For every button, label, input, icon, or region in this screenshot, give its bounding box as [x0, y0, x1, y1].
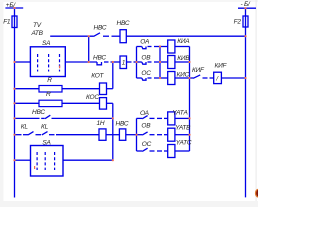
wire rung6 between coils — [106, 134, 119, 136]
junction dot bus rung3 — [13, 88, 15, 90]
svg-text:- Б/: - Б/ — [241, 1, 251, 8]
wire rung3 from bus — [15, 88, 40, 90]
coil 1H — [99, 129, 106, 140]
contact OC upper — [137, 77, 142, 79]
junction dot rung5 V2 — [112, 117, 114, 119]
wire right bus vertical — [245, 8, 247, 197]
contact KL 1 — [23, 134, 28, 136]
wire rung5 right — [52, 117, 113, 119]
wire rung6 from bus — [15, 134, 22, 136]
junction dot middle rail C — [159, 77, 161, 79]
wire rung1 right — [126, 35, 245, 37]
wire rung2 coil to rail — [127, 61, 132, 63]
left window edge — [0, 0, 4, 207]
svg-text:КИС: КИС — [177, 71, 190, 78]
node +B bus top line — [5, 7, 23, 9]
svg-text:F1: F1 — [3, 18, 11, 25]
coil YATB — [168, 128, 175, 141]
wire rung4 mid — [62, 102, 100, 104]
svg-text:НВС: НВС — [116, 121, 129, 128]
wire rung6 to lower rail — [126, 134, 137, 136]
svg-text:YATА: YATА — [172, 110, 187, 117]
svg-text:КИА: КИА — [177, 38, 189, 45]
svg-text:ОВ: ОВ — [141, 54, 151, 61]
red tick SA1 — [59, 66, 60, 69]
wire rung1 left — [50, 35, 93, 37]
coil KIA — [160, 46, 168, 48]
wire KIF to right bus — [221, 77, 245, 79]
svg-text:КОС: КОС — [86, 94, 99, 101]
svg-text:SA: SA — [42, 40, 50, 47]
junction dot KIF bus — [244, 77, 246, 79]
contact KIF — [190, 77, 194, 79]
fuse F1 — [12, 16, 17, 28]
contact OB upper — [137, 61, 142, 63]
junction dot +B — [13, 7, 15, 9]
wire rung4 from bus — [15, 102, 40, 104]
red tick SA2 — [34, 166, 35, 169]
junction dot right rail lower A — [188, 117, 190, 119]
junction dot right rail B — [188, 61, 190, 63]
wire right rail — [189, 47, 191, 152]
fuse F2 — [243, 16, 248, 27]
svg-text:КL: КL — [21, 123, 29, 130]
svg-text:SA: SA — [42, 140, 50, 147]
svg-text:ОА: ОА — [140, 110, 149, 117]
wire bus to SA box — [15, 61, 31, 63]
svg-text:НВС: НВС — [94, 24, 107, 31]
svg-text:КИВ: КИВ — [177, 55, 190, 62]
wire bus to SA2 box — [15, 159, 31, 161]
svg-text:R: R — [46, 91, 51, 98]
svg-text:НВС: НВС — [32, 109, 45, 116]
svg-text:ОС: ОС — [142, 141, 152, 148]
svg-text:ТV: ТV — [33, 22, 42, 29]
svg-text:НВС: НВС — [117, 20, 130, 27]
svg-text:КИF: КИF — [192, 67, 205, 74]
junction dot right rail C — [188, 77, 190, 79]
wire vertical V2 rung4-SA2 — [112, 103, 114, 160]
contact OC lower — [137, 150, 143, 152]
junction dot -B — [244, 7, 246, 9]
wire vertical V1 rung2-rung3 — [112, 62, 114, 89]
wire upper group middle rail — [159, 47, 161, 79]
svg-text:F2: F2 — [234, 19, 242, 26]
wire rung5 from bus — [15, 117, 40, 119]
switch SA box lower — [31, 146, 64, 177]
coil YATA — [168, 112, 175, 125]
coil rung2 — [120, 56, 127, 69]
junction dot rung2 left — [88, 61, 90, 63]
wire rung6 mid — [56, 134, 99, 136]
wire SA box to junction — [65, 61, 97, 63]
svg-text:КL: КL — [41, 123, 49, 130]
contact HBC rung5 — [41, 117, 45, 119]
junction dot rung1 — [88, 35, 90, 37]
svg-text:ОВ: ОВ — [141, 123, 151, 130]
junction dot bus rung4 — [13, 102, 15, 104]
wire upper group left rail — [136, 47, 138, 79]
wire vertical rung1-rung2 — [88, 36, 90, 62]
coil KIC — [160, 77, 168, 79]
wire lower group left rail — [136, 118, 138, 151]
svg-text:YATВ: YATВ — [175, 124, 191, 131]
junction dot bus rung2 — [13, 61, 15, 63]
svg-text:АТВ: АТВ — [31, 30, 44, 37]
resistor R rung4 — [39, 100, 62, 106]
contact OB lower — [137, 134, 143, 136]
coil KOC — [100, 98, 107, 110]
junction dot middle rail B — [159, 61, 161, 63]
contact KL 2 — [42, 132, 48, 135]
svg-text:1Н: 1Н — [97, 120, 105, 127]
svg-text:+Б/: +Б/ — [6, 2, 17, 9]
junction dot rung2 rail — [135, 61, 137, 63]
coil KIB — [160, 61, 168, 63]
junction dot rung1 right bus — [244, 35, 246, 37]
junction dot middle rail A — [159, 45, 161, 47]
node -B bus top line — [238, 7, 256, 9]
switch SA box upper — [30, 47, 65, 77]
contact OA lower — [137, 117, 143, 119]
contact HBC rung2 — [97, 62, 102, 65]
junction dot bus rung5 — [13, 117, 15, 119]
svg-text:R: R — [47, 77, 52, 84]
svg-text:YATС: YATС — [176, 139, 192, 146]
svg-text:КИF: КИF — [215, 63, 228, 70]
coil KIF — [214, 72, 222, 83]
coil HBC rung1 — [120, 30, 126, 43]
resistor R rung3 — [39, 86, 62, 93]
coil HBC rung6 — [119, 129, 125, 140]
wire rung3 right — [107, 88, 113, 90]
junction dot rung2 V1 — [112, 61, 114, 63]
svg-text:КОТ: КОТ — [91, 73, 104, 80]
scroll marker orange — [255, 189, 261, 198]
junction dot bus SA2 — [13, 159, 15, 161]
wire left bus vertical — [14, 8, 16, 198]
wire rung4 right — [107, 102, 113, 104]
junction dot SA2 V2 — [112, 159, 114, 161]
junction dot bus rung6 — [13, 134, 15, 136]
svg-text:НВС: НВС — [93, 54, 106, 61]
wire SA2 box to V2 — [63, 159, 113, 161]
svg-text:ОА: ОА — [140, 39, 149, 46]
coil YATC — [168, 145, 175, 158]
svg-text:ОС: ОС — [141, 70, 151, 77]
contact HBC rung1 — [94, 33, 101, 37]
coil KOT — [100, 83, 107, 95]
junction dot rung6 lower rail — [135, 134, 137, 136]
contact OA upper — [137, 46, 142, 48]
junction dot right rail lower B — [188, 134, 190, 136]
wire rung3 mid — [62, 88, 100, 90]
bottom window strip — [0, 201, 258, 207]
